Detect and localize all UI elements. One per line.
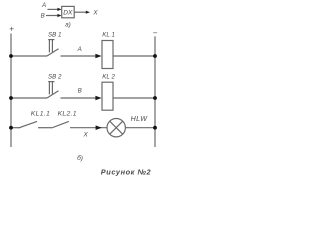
wire left rail to SB2 [11, 97, 47, 99]
svg-text:KL 2: KL 2 [102, 73, 115, 80]
junction right rail row 3 [153, 126, 157, 130]
node B (signal into KL2) [78, 87, 82, 94]
label a) [65, 21, 71, 28]
left supply rail wire [10, 34, 12, 148]
junction left rail row 1 [9, 54, 13, 58]
push-button SB2 [47, 74, 62, 98]
node A (signal into KL1) [77, 46, 82, 53]
junction right rail row 1 [153, 54, 157, 58]
svg-text:KL 1: KL 1 [102, 31, 115, 38]
svg-text:SB 1: SB 1 [48, 32, 61, 39]
junction left rail row 2 [9, 96, 13, 100]
node B (input to DX) [41, 12, 45, 19]
label b) [77, 154, 83, 162]
relay coil KL2 [102, 73, 115, 110]
svg-text:а): а) [65, 21, 71, 28]
wire DX output with arrowhead [74, 11, 90, 14]
wire lamp to right rail [125, 127, 155, 129]
svg-text:A: A [41, 2, 46, 9]
wire KL1.1 to KL2.1 [38, 127, 52, 129]
wire KL2 to right rail [113, 97, 155, 99]
push-button SB1 [47, 32, 61, 56]
wire A to DX with arrowhead [48, 8, 62, 11]
node A (input to DX) [41, 2, 46, 9]
wire SB2 to KL2 with arrowhead [61, 96, 102, 101]
relay coil KL1 [102, 31, 115, 68]
svg-text:KL2.1: KL2.1 [58, 111, 77, 118]
svg-text:DX: DX [63, 10, 73, 17]
svg-text:KL1.1: KL1.1 [31, 110, 50, 117]
right supply rail wire [154, 36, 156, 147]
wire KL2.1 to lamp with arrowhead [70, 125, 107, 130]
svg-text:B: B [78, 87, 82, 94]
wire B to DX with arrowhead [46, 14, 62, 17]
junction left rail row 3 [9, 126, 13, 130]
node X (signal into lamp) [83, 131, 89, 138]
relay contact KL1.1 [19, 110, 51, 128]
wire KL1 to right rail [113, 55, 155, 57]
node X (output of DX) [92, 10, 98, 17]
svg-text:X: X [83, 131, 89, 138]
lamp HLW [107, 115, 148, 137]
logic block DX [62, 6, 74, 17]
svg-text:б): б) [77, 154, 83, 162]
svg-text:A: A [77, 46, 82, 53]
svg-text:+: + [9, 25, 14, 34]
caption Рисунок №2 [101, 167, 152, 176]
svg-text:Рисунок №2: Рисунок №2 [101, 167, 152, 176]
wire left rail to KL1.1 [11, 127, 19, 129]
svg-text:B: B [41, 12, 45, 19]
svg-text:HLW: HLW [131, 115, 149, 123]
svg-text:X: X [92, 10, 98, 17]
junction right rail row 2 [153, 96, 157, 100]
wire SB1 to KL1 with arrowhead [61, 54, 102, 59]
svg-text:SB 2: SB 2 [48, 74, 62, 81]
minus supply terminal [153, 29, 158, 38]
plus supply terminal [9, 25, 14, 34]
wire left rail to SB1 [11, 55, 47, 57]
relay contact KL2.1 [51, 111, 76, 128]
